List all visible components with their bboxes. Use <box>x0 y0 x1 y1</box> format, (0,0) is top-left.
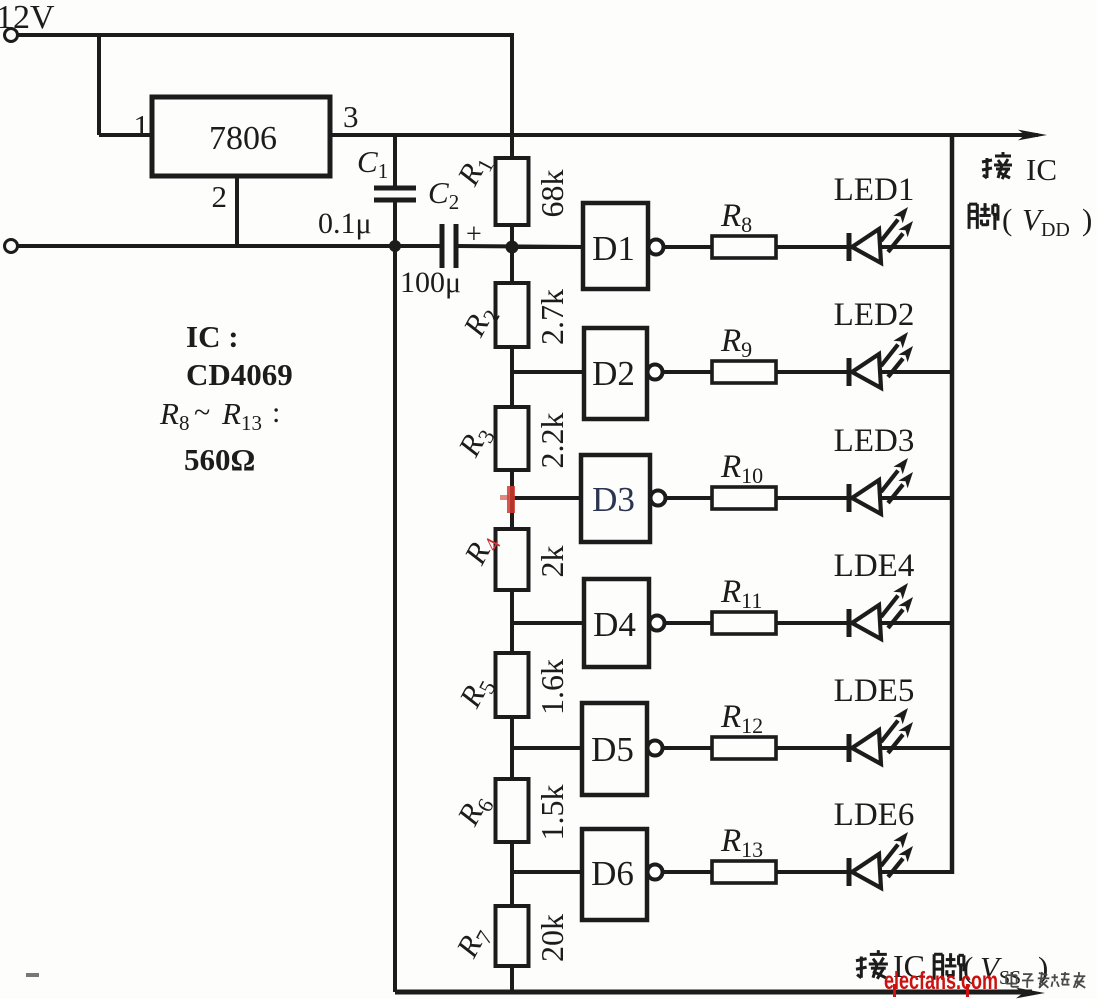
svg-text:1: 1 <box>134 108 150 143</box>
svg-text:~: ~ <box>194 396 210 429</box>
wire chain seg 2 <box>510 347 514 407</box>
wire left vertical VSS <box>393 244 397 992</box>
wire LED to rail row 2 <box>879 370 952 374</box>
resistor R6 <box>496 779 529 842</box>
resistor R1 <box>496 158 529 225</box>
label R6 <box>450 788 499 834</box>
arrowhead VDD rail <box>1018 130 1047 141</box>
LED LDE6 <box>849 832 913 888</box>
terminal +12V input <box>5 29 18 42</box>
wire R11 to LED <box>776 621 847 625</box>
wire tap D2 <box>512 370 583 374</box>
inverter D1 <box>583 203 648 289</box>
inverter D5 output bubble <box>648 741 663 756</box>
pin 3 label <box>343 99 359 134</box>
note 560ohm <box>184 442 255 477</box>
wire chain seg 6 <box>510 842 514 906</box>
LED LED3 <box>849 458 913 514</box>
wire tap D3 <box>512 496 583 500</box>
label D6 <box>591 854 634 893</box>
wire bottom VSS rail <box>395 990 1032 995</box>
watermark red tick 1 <box>893 984 896 997</box>
svg-text:D2: D2 <box>592 354 635 393</box>
LED LDE5 <box>849 708 913 764</box>
label jiao (VDD) <box>969 202 1092 241</box>
resistor R11 <box>712 612 776 634</box>
wire LED to rail row 6 <box>879 870 952 874</box>
wire 12V to R1 <box>510 33 514 158</box>
label R5 <box>452 670 501 716</box>
value 1.6k R5 <box>534 659 570 715</box>
resistor R5 <box>496 653 529 717</box>
value 1.5k R6 <box>534 785 570 841</box>
wire bottom input rail <box>18 244 441 248</box>
value 20k R7 <box>534 914 570 962</box>
svg-text:1.5k: 1.5k <box>534 785 570 841</box>
svg-text:D6: D6 <box>591 854 634 893</box>
stray dash bottom left <box>26 973 39 977</box>
svg-text:560Ω: 560Ω <box>184 442 255 477</box>
inverter D6 <box>582 829 647 920</box>
label jie-IC-jiao (VSS) bottom <box>856 948 1048 989</box>
wire tap D1 <box>512 245 583 249</box>
svg-text:IC :: IC : <box>186 319 239 354</box>
svg-text:100μ: 100μ <box>400 266 461 299</box>
wire D2 to R9 <box>662 370 712 374</box>
inverter D5 <box>582 703 647 795</box>
svg-text:2.7k: 2.7k <box>534 289 570 345</box>
arrowhead VSS rail <box>1016 988 1045 999</box>
svg-text:2k: 2k <box>534 546 570 578</box>
label R7 <box>449 920 498 966</box>
inverter D4 output bubble <box>650 616 665 631</box>
wire R7 to bottom rail <box>510 966 514 992</box>
svg-text:20k: 20k <box>534 914 570 962</box>
wire R13 to LED <box>776 870 847 874</box>
svg-text:elecfans.com: elecfans.com <box>884 967 998 995</box>
label D5 <box>591 730 634 769</box>
svg-text:): ) <box>1082 202 1092 237</box>
wire node B to D1 input <box>456 246 583 247</box>
svg-text:7806: 7806 <box>209 120 277 157</box>
wire LED to rail row 1 <box>879 245 952 249</box>
svg-text:IC: IC <box>1026 152 1057 187</box>
resistor R10 <box>712 487 776 509</box>
svg-text:68k: 68k <box>534 170 570 218</box>
svg-text:0.1μ: 0.1μ <box>318 207 372 240</box>
label LDE4 <box>834 548 915 584</box>
label R1 <box>450 148 499 194</box>
wire C1 branch top <box>393 133 397 186</box>
svg-text:D5: D5 <box>591 730 634 769</box>
svg-text:12V: 12V <box>0 0 55 36</box>
wire tap D5 <box>512 746 583 750</box>
inverter D3 <box>581 455 650 542</box>
resistor R4 <box>496 529 529 590</box>
wire chain seg 5 <box>510 717 514 779</box>
svg-text:D1: D1 <box>592 229 635 268</box>
wire R12 to LED <box>776 746 847 750</box>
svg-text:): ) <box>1038 950 1048 985</box>
svg-text:3: 3 <box>343 99 359 134</box>
wire D6 to R13 <box>662 870 712 874</box>
note R8~R13 <box>159 396 280 435</box>
capacitor C2 plates <box>442 224 456 268</box>
inverter D2 output bubble <box>648 365 663 380</box>
wire tap D4 <box>512 621 583 625</box>
resistor R12 <box>712 737 776 759</box>
value 2k R4 <box>534 546 570 578</box>
label R10 <box>720 449 763 488</box>
label 12V <box>0 0 55 36</box>
resistor R3 <box>496 407 529 470</box>
label D1 <box>592 229 635 268</box>
label R8 <box>720 198 752 237</box>
regulator U1 7806 <box>152 97 330 176</box>
wire R8 to LED <box>776 245 847 249</box>
wire R10 to LED <box>776 496 847 500</box>
wire drop to pin1 <box>99 33 152 135</box>
resistor R8 <box>712 236 776 258</box>
wire LED to rail row 5 <box>879 746 952 750</box>
label C1 <box>357 144 388 183</box>
label R3 <box>451 419 500 465</box>
resistor R13 <box>712 861 776 883</box>
label D4 <box>593 605 636 644</box>
label R11 <box>720 574 762 613</box>
watermark elecfans.com <box>884 967 998 995</box>
note CD4069 <box>186 357 293 392</box>
pin 1 label <box>134 108 150 143</box>
plus sign C2 <box>466 219 482 250</box>
wire C1 branch bottom <box>393 200 397 248</box>
inverter D2 <box>584 328 647 419</box>
svg-text:LED1: LED1 <box>834 172 915 208</box>
capacitor C1 plates <box>374 188 416 200</box>
label LED1 <box>834 172 915 208</box>
pin 2 label <box>212 179 228 214</box>
label R4 <box>457 527 506 573</box>
wire LED to rail row 3 <box>879 496 952 500</box>
wire D4 to R11 <box>664 621 712 625</box>
label R12 <box>720 699 763 738</box>
watermark red tick 2 <box>966 984 969 997</box>
watermark red wire artifact <box>500 486 515 513</box>
inverter D1 output bubble <box>649 240 664 255</box>
wire 12V top rail <box>18 33 512 37</box>
label LDE5 <box>834 673 915 709</box>
value 2.7k R2 <box>534 289 570 345</box>
wire D3 to R10 <box>665 496 712 500</box>
svg-text:LDE4: LDE4 <box>834 548 915 584</box>
label LED2 <box>834 297 915 333</box>
label LED3 <box>834 423 915 459</box>
inverter D4 <box>584 579 649 667</box>
LED LED1 <box>849 207 913 263</box>
svg-text:LDE6: LDE6 <box>834 797 915 833</box>
resistor R7 <box>496 906 529 966</box>
svg-text:D4: D4 <box>593 605 636 644</box>
svg-text:(: ( <box>1002 202 1012 237</box>
LED LED2 <box>849 332 913 388</box>
label R13 <box>720 823 763 862</box>
inverter D3 output bubble <box>651 491 666 506</box>
svg-text:LDE5: LDE5 <box>834 673 915 709</box>
LED LDE4 <box>849 583 913 639</box>
svg-text:LED2: LED2 <box>834 297 915 333</box>
svg-text:CD4069: CD4069 <box>186 357 293 392</box>
svg-text:2: 2 <box>212 179 228 214</box>
value 68k R1 <box>534 170 570 218</box>
inverter D6 output bubble <box>648 865 663 880</box>
wire pin3 output rail <box>330 133 1038 137</box>
svg-text:1.6k: 1.6k <box>534 659 570 715</box>
wire chain seg 1 <box>510 225 514 283</box>
resistor R9 <box>712 361 776 383</box>
watermark dianzifashaoyou <box>1006 972 1085 988</box>
value 100u <box>400 266 461 299</box>
resistor R2 <box>496 283 529 347</box>
label jie-IC top <box>982 152 1057 187</box>
wire R9 to LED <box>776 370 847 374</box>
wire D1 to R8 <box>663 245 712 249</box>
wire D5 to R12 <box>662 746 712 750</box>
svg-text:2.2k: 2.2k <box>534 413 570 469</box>
value 2.2k R3 <box>534 413 570 469</box>
wire chain seg 3 <box>510 470 514 529</box>
wire VDD right rail <box>950 133 955 874</box>
wire chain seg 4 <box>510 590 514 653</box>
label D3 <box>592 480 635 519</box>
wire pin2 ground <box>235 176 239 246</box>
terminal 0V input <box>5 240 18 253</box>
label R9 <box>720 323 752 362</box>
node B junction <box>506 241 519 254</box>
node A junction <box>389 240 401 252</box>
label D2 <box>592 354 635 393</box>
wire LED to rail row 4 <box>879 621 952 625</box>
label LDE6 <box>834 797 915 833</box>
svg-text::: : <box>272 396 280 429</box>
label R2 <box>456 299 505 345</box>
wire tap D6 <box>512 870 583 874</box>
note IC: <box>186 319 239 354</box>
svg-text:D3: D3 <box>592 480 635 519</box>
value 0.1u <box>318 207 372 240</box>
label C2 <box>428 175 459 214</box>
svg-text:LED3: LED3 <box>834 423 915 459</box>
